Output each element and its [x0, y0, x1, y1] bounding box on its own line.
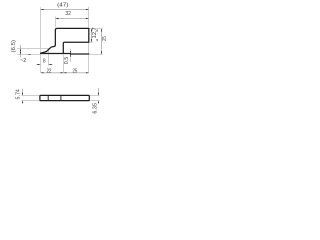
svg-text:(47): (47) [57, 3, 68, 9]
svg-text:12.7: 12.7 [92, 27, 98, 38]
svg-text:6.35: 6.35 [92, 103, 98, 114]
svg-text:25: 25 [102, 36, 108, 41]
svg-text:5.74: 5.74 [15, 89, 21, 99]
svg-text:25: 25 [73, 69, 78, 75]
svg-text:0.5: 0.5 [64, 57, 70, 64]
svg-text:8: 8 [43, 59, 46, 65]
svg-text:(6.5): (6.5) [11, 40, 17, 53]
svg-text:22: 22 [47, 68, 52, 74]
svg-text:~2: ~2 [20, 58, 26, 64]
svg-text:32: 32 [65, 11, 71, 17]
